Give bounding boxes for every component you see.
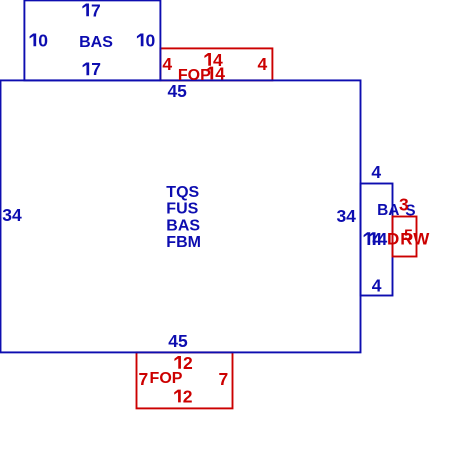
room MAIN (TQS/FUS/BAS/FBM) outline — [1, 80, 361, 352]
svg-text:FUS: FUS — [166, 201, 198, 218]
dimension 17 (top of top-left BAS) — [82, 0, 100, 20]
room FOP (top porch) outline — [160, 48, 272, 80]
svg-text:4: 4 — [258, 54, 268, 74]
svg-text:4: 4 — [372, 275, 382, 295]
svg-text:BAS: BAS — [79, 34, 113, 51]
svg-text:34: 34 — [336, 206, 356, 226]
svg-text:4: 4 — [162, 54, 172, 74]
svg-text:0: 0 — [146, 30, 156, 50]
svg-text:FBM: FBM — [166, 234, 201, 251]
room BAS (top-left) outline — [24, 0, 160, 80]
room BAS (right) outline — [361, 184, 393, 296]
svg-text:2: 2 — [183, 386, 193, 406]
svg-text:7: 7 — [139, 369, 149, 389]
svg-text:45: 45 — [168, 331, 188, 351]
dimension 14 (left of right BAS) — [364, 229, 383, 249]
room DRW outline — [393, 217, 417, 257]
svg-text:BA: BA — [377, 202, 399, 219]
svg-text:2: 2 — [183, 353, 193, 373]
room FOP (bottom porch) outline — [137, 352, 233, 408]
svg-text:BAS: BAS — [166, 217, 200, 234]
dimension 17 (bottom of top-left BAS) — [83, 59, 101, 79]
svg-text:5: 5 — [404, 228, 413, 245]
dimension 12 (bottom of bottom FOP) — [174, 386, 193, 406]
svg-text:TQS: TQS — [166, 184, 199, 201]
dimension 12 (top of bottom FOP) — [174, 353, 193, 373]
svg-text:FOP: FOP — [150, 370, 183, 387]
svg-text:45: 45 — [167, 81, 187, 101]
dimension 14 (right of right BAS) — [369, 229, 388, 249]
dimension 10 (left of top-left BAS) — [30, 30, 49, 50]
svg-text:3: 3 — [399, 195, 409, 215]
svg-text:7: 7 — [91, 59, 101, 79]
svg-text:7: 7 — [91, 0, 101, 20]
svg-text:4: 4 — [215, 63, 225, 83]
dimension 14 (bottom of top FOP) — [207, 63, 226, 83]
dimension 14 (top of top FOP) — [204, 50, 223, 70]
svg-text:34: 34 — [2, 205, 22, 225]
svg-text:4: 4 — [371, 162, 381, 182]
svg-text:0: 0 — [38, 30, 48, 50]
svg-text:7: 7 — [219, 369, 229, 389]
dimension 10 (right of top-left BAS) — [137, 30, 156, 50]
